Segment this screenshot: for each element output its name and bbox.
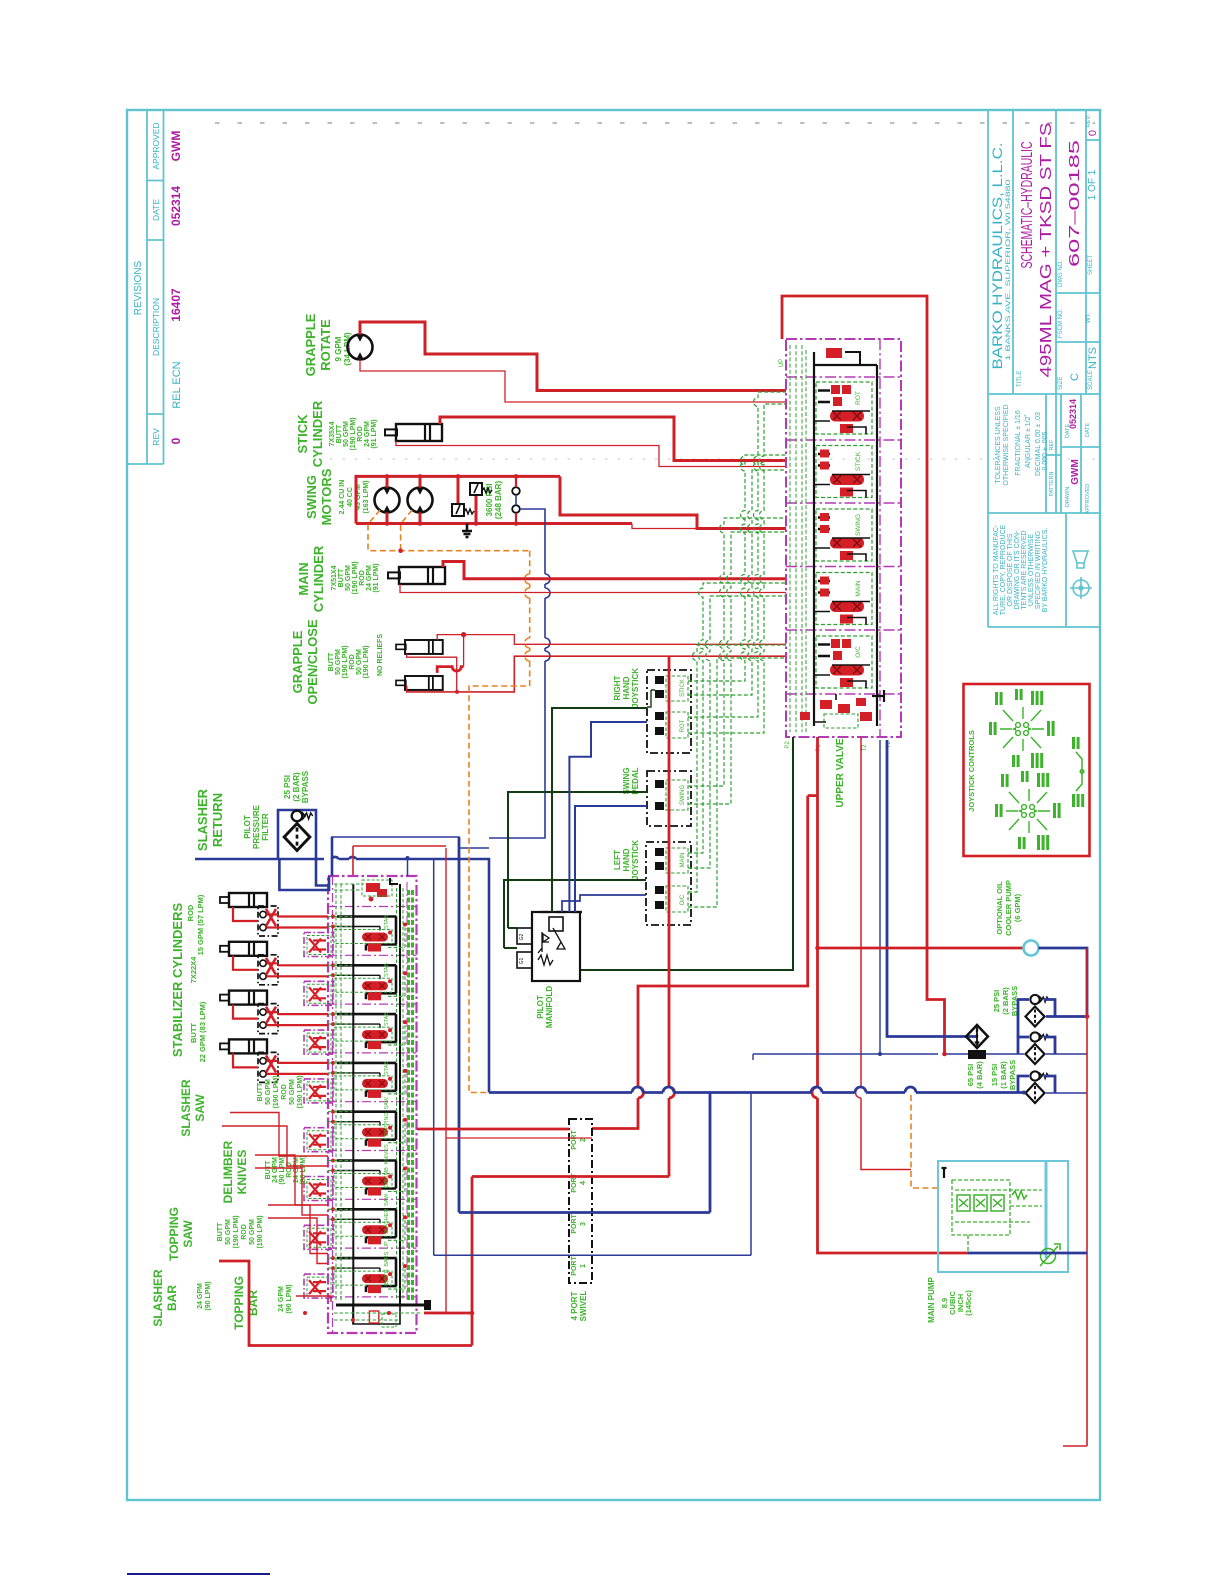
wire: grapple o/c butt net (red) xyxy=(437,633,786,667)
joystick: swing pedal (box) xyxy=(647,771,691,826)
lower valve section 5: TOPPING SAW xyxy=(304,1096,407,1151)
svg-text:50 GPM: 50 GPM xyxy=(249,1219,256,1245)
svg-text:REV.: REV. xyxy=(1086,114,1092,127)
svg-text:O/C: O/C xyxy=(680,894,686,905)
svg-text:ROD: ROD xyxy=(349,654,356,670)
svg-text:APPROVED: APPROVED xyxy=(151,122,161,169)
wire: T2 thin blue east xyxy=(753,1053,1024,1055)
blue return main to port1/port3 xyxy=(458,837,461,1213)
svg-text:495ML MAG + TKSD ST FS: 495ML MAG + TKSD ST FS xyxy=(1038,123,1055,378)
svg-text:ROD: ROD xyxy=(359,570,366,586)
upper valve inner enclosure line xyxy=(879,339,881,737)
svg-text:MANIFOLD: MANIFOLD xyxy=(545,986,554,1028)
cylinder: stick xyxy=(385,424,442,441)
svg-text:RIGHT: RIGHT xyxy=(613,675,622,700)
svg-text:SAW: SAW xyxy=(181,1220,195,1248)
svg-text:PILOT: PILOT xyxy=(243,815,252,839)
lower valve section 8: BOTH BARS UP xyxy=(304,1241,407,1298)
wire: port2 red west xyxy=(417,1128,569,1131)
svg-text:25 PSI: 25 PSI xyxy=(283,775,292,799)
svg-text:G1: G1 xyxy=(519,957,525,964)
svg-text:15 GPM (57 LPM): 15 GPM (57 LPM) xyxy=(196,894,205,955)
svg-text:O/C: O/C xyxy=(855,646,862,658)
joystick: left hand (box) xyxy=(646,842,691,925)
svg-text:SWING: SWING xyxy=(622,767,631,794)
svg-text:052314: 052314 xyxy=(1068,399,1078,429)
wire: swing pressure buses (red) xyxy=(356,476,786,528)
filter pair: 15 psi xyxy=(1018,1071,1055,1103)
wire: pilot P supply (dark green) from upper valve to manifold xyxy=(580,737,793,970)
svg-text:JOYSTICK: JOYSTICK xyxy=(631,668,640,708)
upper valve work sections xyxy=(814,382,872,688)
section: SWING xyxy=(814,509,872,561)
svg-text:DELIMBER: DELIMBER xyxy=(221,1140,235,1203)
stabilizer labels xyxy=(170,894,207,1062)
filter pair: 25 psi xyxy=(1018,995,1055,1027)
svg-text:SWING: SWING xyxy=(855,514,862,536)
svg-text:GRAPPLE: GRAPPLE xyxy=(303,313,318,376)
svg-text:SWING: SWING xyxy=(304,475,319,519)
svg-text:BUTT: BUTT xyxy=(328,652,335,671)
svg-text:OPTIONAL OIL: OPTIONAL OIL xyxy=(995,881,1004,935)
svg-text:STICK: STICK xyxy=(295,414,310,454)
svg-text:COOLER PUMP: COOLER PUMP xyxy=(1004,880,1013,936)
section: ROT xyxy=(814,382,872,434)
revisions table xyxy=(127,111,164,464)
svg-text:OPEN/CLOSE: OPEN/CLOSE xyxy=(305,619,320,705)
label: main pump xyxy=(927,1276,973,1322)
stabilizer cylinder 1 xyxy=(220,893,278,936)
wire: main return (blue) across bottom xyxy=(489,1087,1024,1093)
fold tick marks below top frame xyxy=(215,122,1095,124)
svg-text:15 PSI: 15 PSI xyxy=(990,1064,999,1087)
svg-text:SLASHER: SLASHER xyxy=(151,1269,165,1327)
svg-text:PORT: PORT xyxy=(571,1214,578,1234)
svg-text:50 GPM: 50 GPM xyxy=(343,421,350,447)
svg-text:PORT: PORT xyxy=(571,1130,578,1150)
relief valve: swing 2 xyxy=(470,483,492,495)
svg-text:2.44 CU IN: 2.44 CU IN xyxy=(339,480,346,515)
svg-text:SLASHER SAW: SLASHER SAW xyxy=(384,1193,390,1235)
svg-text:STAB: STAB xyxy=(384,1061,390,1075)
svg-text:BYPASS: BYPASS xyxy=(1008,1060,1017,1090)
svg-text:(190 LPM): (190 LPM) xyxy=(297,1075,304,1108)
svg-text:MOTORS: MOTORS xyxy=(319,468,334,525)
lower valve section 1: STAB xyxy=(304,915,407,957)
svg-text:GWM: GWM xyxy=(1070,459,1081,485)
svg-text:TOPPING: TOPPING xyxy=(232,1276,246,1330)
svg-text:50 GPM: 50 GPM xyxy=(265,1079,272,1105)
lower valve black rails xyxy=(353,884,400,1324)
svg-text:BUTT: BUTT xyxy=(189,1023,198,1043)
svg-text:(1 BAR): (1 BAR) xyxy=(999,1061,1008,1089)
svg-text:25 PSI: 25 PSI xyxy=(992,990,1001,1013)
svg-text:T2: T2 xyxy=(862,744,868,752)
svg-text:RETURN: RETURN xyxy=(210,793,225,847)
svg-text:FILTER: FILTER xyxy=(261,813,270,841)
wire: port1 blue xyxy=(434,1093,751,1256)
title block text xyxy=(989,114,1099,390)
svg-text:ROD: ROD xyxy=(241,1224,248,1240)
svg-text:GRAPPLE: GRAPPLE xyxy=(290,630,305,693)
svg-text:3: 3 xyxy=(580,1222,587,1226)
svg-text:SLASHER: SLASHER xyxy=(195,788,210,851)
wire: upper valve T2 drain (blue thin) xyxy=(879,740,881,1054)
svg-text:DECIMAL 0.00 ± .03: DECIMAL 0.00 ± .03 xyxy=(1035,412,1042,476)
upper valve enclosure (purple dash-dot) xyxy=(786,339,901,737)
wire: grapple rotate A (red) xyxy=(360,322,786,391)
lower valve section 2: STAB xyxy=(304,963,407,1006)
svg-text:1 OF 1: 1 OF 1 xyxy=(1087,169,1098,200)
svg-text:24 GPM: 24 GPM xyxy=(197,1283,204,1309)
svg-text:(2 BAR): (2 BAR) xyxy=(292,772,301,802)
svg-text:9 GPM: 9 GPM xyxy=(334,336,343,361)
svg-text:STICK: STICK xyxy=(680,679,686,697)
svg-text:50 GPM: 50 GPM xyxy=(289,1079,296,1105)
saw circuit wires (red) xyxy=(222,1113,331,1303)
svg-text:24 GPM: 24 GPM xyxy=(272,1157,279,1183)
svg-text:7X35X4: 7X35X4 xyxy=(329,421,336,446)
wire: swing drain to return (blue) xyxy=(489,509,550,838)
svg-text:DRAWING OR ITS CON-: DRAWING OR ITS CON- xyxy=(1014,530,1021,609)
svg-text:PRESSURE: PRESSURE xyxy=(252,804,261,849)
wire: blue return upper (from upper valve area) xyxy=(331,837,489,848)
svg-text:HAND: HAND xyxy=(622,676,631,699)
section: MAIN xyxy=(814,573,872,625)
svg-text:STICK: STICK xyxy=(855,451,862,471)
svg-text:ALL RIGHTS TO MANUFAC-: ALL RIGHTS TO MANUFAC- xyxy=(993,524,1000,615)
svg-text:(163 LPM): (163 LPM) xyxy=(363,480,370,513)
svg-text:BUTT: BUTT xyxy=(338,568,345,587)
svg-text:SWING: SWING xyxy=(680,785,686,806)
svg-text:STAB: STAB xyxy=(384,1012,390,1026)
wire: upper valve T trunk (blue) xyxy=(887,740,977,1037)
svg-text:NO RELIEFS: NO RELIEFS xyxy=(377,634,384,676)
svg-text:50 GPM: 50 GPM xyxy=(356,649,363,675)
svg-text:24 GPM: 24 GPM xyxy=(364,421,371,447)
svg-text:0: 0 xyxy=(1087,130,1099,136)
65 psi filter xyxy=(966,1025,988,1048)
cylinder: main xyxy=(388,567,445,584)
logo mark xyxy=(1070,551,1092,599)
svg-text:UPPER VALVE: UPPER VALVE xyxy=(835,738,846,807)
svg-text:3600 PSI: 3600 PSI xyxy=(485,484,494,517)
svg-text:FRACTIONAL ± 1/16: FRACTIONAL ± 1/16 xyxy=(1015,410,1022,476)
wire: upper valve O/C-B return leg (red) xyxy=(592,796,808,1129)
svg-text:C: C xyxy=(1069,373,1081,381)
svg-text:(248 BAR): (248 BAR) xyxy=(494,481,503,520)
svg-text:SIZE: SIZE xyxy=(1058,377,1064,390)
svg-text:(190 LPM): (190 LPM) xyxy=(350,417,357,450)
svg-text:PILOT: PILOT xyxy=(536,995,545,1019)
svg-text:APPROVED: APPROVED xyxy=(1085,484,1091,515)
orange case drain to pump xyxy=(911,1095,938,1188)
svg-text:OR DISPOSE OF THIS: OR DISPOSE OF THIS xyxy=(1007,533,1014,606)
red charge trunk down right xyxy=(1063,948,1087,1446)
wire: swing test point to blue drain xyxy=(515,495,517,505)
svg-text:4 PORT: 4 PORT xyxy=(570,1291,579,1320)
green dashed pilot fan: joysticks to upper valve sections xyxy=(688,392,786,907)
svg-text:50 GPM: 50 GPM xyxy=(345,565,352,591)
svg-text:KNIVES: KNIVES xyxy=(235,1150,249,1195)
svg-text:STABILIZER CYLINDERS: STABILIZER CYLINDERS xyxy=(170,903,185,1058)
svg-text:1 BANKS AVE. SUPERIOR, WI 5: 1 BANKS AVE. SUPERIOR, WI 54880 xyxy=(1005,179,1012,361)
svg-text:DESCRIPTION: DESCRIPTION xyxy=(151,298,161,356)
svg-text:65 PSI: 65 PSI xyxy=(966,1064,975,1087)
svg-text:(90 LPM): (90 LPM) xyxy=(300,1155,307,1184)
svg-text:SAW: SAW xyxy=(193,1094,207,1122)
pilot pressure filter assembly xyxy=(278,810,316,859)
section: O/C xyxy=(814,636,872,688)
lower valve inlet section xyxy=(334,878,398,902)
svg-text:BARKO HYDRAULICS, L.L.C.: BARKO HYDRAULICS, L.L.C. xyxy=(989,143,1005,370)
svg-text:607–00185: 607–00185 xyxy=(1066,140,1083,267)
svg-text:(190 LPM): (190 LPM) xyxy=(273,1075,280,1108)
svg-text:STAB: STAB xyxy=(384,963,390,977)
svg-text:16407: 16407 xyxy=(169,288,183,322)
lower valve section 7: SLASHER SAW xyxy=(304,1193,407,1249)
svg-text:JOYSTICK: JOYSTICK xyxy=(631,840,640,880)
svg-text:ROD: ROD xyxy=(357,426,364,442)
svg-text:FSCM NO.: FSCM NO. xyxy=(1058,308,1064,338)
red pilot riser right of bank xyxy=(424,848,446,1313)
svg-text:ROTATE: ROTATE xyxy=(318,319,333,371)
svg-text:24 GPM: 24 GPM xyxy=(293,1157,300,1183)
svg-text:G2: G2 xyxy=(519,933,525,940)
wire: main butt (red) xyxy=(443,562,786,579)
pilot manifold block xyxy=(517,912,582,981)
wire: stick rod (red thin) xyxy=(396,441,786,467)
lower valve section 4: STAB xyxy=(304,1061,407,1103)
svg-text:REV: REV xyxy=(151,428,161,446)
svg-text:(190 LPM): (190 LPM) xyxy=(352,561,359,594)
tank stub under swing relief xyxy=(462,524,472,538)
motor: grapple rotate xyxy=(348,335,373,360)
wire: upper valve P2 trunk (red) xyxy=(812,737,968,1253)
wire: port4 red xyxy=(472,656,675,1176)
wire: orange pilot drain from swing motors xyxy=(368,510,530,1093)
wire: pilot P net (dark green) manifold to joysticks xyxy=(504,708,647,948)
stabilizer cylinder 3 xyxy=(220,991,278,1034)
cylinders: grapple open/close xyxy=(396,640,443,654)
svg-text:PORT: PORT xyxy=(571,1256,578,1276)
joystick: right hand (box) xyxy=(647,670,691,753)
wire: pilot T net (blue) joysticks to manifold xyxy=(562,722,647,912)
svg-text:4: 4 xyxy=(580,1181,587,1185)
svg-text:GWM: GWM xyxy=(169,131,183,162)
optional oil cooler pump xyxy=(995,880,1022,936)
svg-text:SCALE: SCALE xyxy=(1088,370,1094,390)
tolerances block text xyxy=(995,399,1091,514)
revisions table text xyxy=(133,122,183,445)
svg-text:24 GPM: 24 GPM xyxy=(366,565,373,591)
svg-text:REVISIONS: REVISIONS xyxy=(133,260,144,315)
svg-text:052314: 052314 xyxy=(169,186,183,226)
wire: upper valve P1 trunk (red) xyxy=(856,737,906,1170)
svg-text:(90 LPM): (90 LPM) xyxy=(205,1281,212,1310)
svg-text:CYLINDER: CYLINDER xyxy=(310,400,325,467)
svg-text:MAIN: MAIN xyxy=(296,562,311,595)
lower valve section 6: DELIMB KNIVES xyxy=(304,1144,407,1201)
svg-text:TITLE: TITLE xyxy=(1017,371,1023,387)
svg-text:ROD: ROD xyxy=(186,904,195,921)
svg-text:DATE: DATE xyxy=(151,199,161,221)
svg-text:BYPASS: BYPASS xyxy=(301,770,310,803)
svg-text:LEFT: LEFT xyxy=(613,850,622,870)
svg-text:ANGULAR ± 1/2˚: ANGULAR ± 1/2˚ xyxy=(1024,414,1032,468)
svg-text:NTS: NTS xyxy=(1087,347,1099,369)
slasher bar loop wire (red) xyxy=(219,1177,472,1346)
saw/knife/bar labels xyxy=(151,1075,307,1329)
fold mark dashed line xyxy=(330,458,1100,460)
svg-text:UP: UP xyxy=(779,359,785,367)
svg-text:(2 BAR): (2 BAR) xyxy=(1001,987,1010,1015)
wire: main rod (red thin) xyxy=(400,584,786,593)
svg-text:REF: REF xyxy=(1049,439,1055,451)
svg-text:TURE, COPY, REPRODUCE: TURE, COPY, REPRODUCE xyxy=(1000,524,1007,615)
stabilizer cylinder 2 xyxy=(220,942,278,985)
svg-text:BUTT: BUTT xyxy=(217,1222,224,1241)
title block lines xyxy=(988,111,1100,627)
svg-text:CYLINDER: CYLINDER xyxy=(311,545,326,612)
svg-text:50 GPM: 50 GPM xyxy=(335,649,342,675)
border frame xyxy=(127,110,1100,1500)
svg-text:50 GPM: 50 GPM xyxy=(225,1219,232,1245)
svg-text:BOTH BARS UP: BOTH BARS UP xyxy=(384,1241,390,1285)
svg-text:PATTERN: PATTERN xyxy=(1049,472,1055,497)
test point gauges (swing) xyxy=(512,487,520,513)
svg-text:(90 LPM): (90 LPM) xyxy=(279,1155,286,1184)
svg-text:TOLERANCES UNLESS: TOLERANCES UNLESS xyxy=(995,406,1002,484)
upper valve black supply rails xyxy=(814,352,877,726)
lower valve section 3: STAB xyxy=(304,1012,407,1054)
svg-text:HAND: HAND xyxy=(622,848,631,871)
upper valve top inlet cluster xyxy=(779,348,860,367)
svg-text:(6 GPM): (6 GPM) xyxy=(1013,893,1022,922)
svg-text:7X51X4: 7X51X4 xyxy=(331,565,338,590)
svg-text:1: 1 xyxy=(580,1264,587,1268)
svg-text:(190 LPM): (190 LPM) xyxy=(257,1215,264,1248)
svg-text:STAB: STAB xyxy=(384,915,390,929)
wire: red supply top of upper valve xyxy=(782,296,945,1054)
filter pair: mid xyxy=(1018,1032,1055,1064)
svg-text:REL ECN: REL ECN xyxy=(171,361,183,408)
lower valve load-sense ladder (green) xyxy=(407,890,410,1300)
svg-text:(190 LPM): (190 LPM) xyxy=(233,1215,240,1248)
svg-text:(190 LPM): (190 LPM) xyxy=(363,645,370,678)
bottom-left blue underline artifact xyxy=(127,1573,270,1575)
svg-text:MAIN: MAIN xyxy=(855,580,862,597)
wire: grapple rotate B (red thin) xyxy=(360,360,786,403)
svg-text:UNLESS OTHERWISE: UNLESS OTHERWISE xyxy=(1028,534,1035,607)
svg-text:BUTT: BUTT xyxy=(265,1160,272,1179)
svg-text:0.000 ± .005: 0.000 ± .005 xyxy=(1042,431,1049,470)
svg-text:BAR: BAR xyxy=(165,1285,179,1311)
svg-text:24 GPM: 24 GPM xyxy=(278,1286,285,1312)
lower valve enclosure (purple dash-dot) xyxy=(328,876,417,1333)
stabilizer cylinder 4 xyxy=(220,1039,278,1082)
svg-text:ROT: ROT xyxy=(680,719,686,732)
wire: red pilot feed into lower bank xyxy=(353,846,446,876)
wire: stick butt (red) xyxy=(440,417,786,461)
svg-text:P2: P2 xyxy=(785,741,791,749)
svg-text:TOPPING: TOPPING xyxy=(167,1207,181,1261)
pilot filter drain verticals into bank xyxy=(279,837,332,890)
svg-text:DELIMB KNIVES: DELIMB KNIVES xyxy=(384,1144,390,1188)
svg-text:22 GPM (83 LPM): 22 GPM (83 LPM) xyxy=(198,1001,207,1062)
svg-text:SCHEMATIC–HYDRAULIC: SCHEMATIC–HYDRAULIC xyxy=(1019,142,1036,269)
svg-text:(145cc): (145cc) xyxy=(964,1290,973,1316)
svg-text:MAIN: MAIN xyxy=(680,853,686,868)
svg-text:DRAWN: DRAWN xyxy=(1065,487,1071,508)
upper valve green pilot rails (dashed) xyxy=(790,345,806,732)
lower valve section dividers xyxy=(328,907,417,1297)
svg-text:MAIN PUMP: MAIN PUMP xyxy=(927,1276,936,1322)
svg-text:ROD: ROD xyxy=(281,1084,288,1100)
svg-text:WT.: WT. xyxy=(1086,313,1092,324)
pump outlet (navy) xyxy=(968,1252,1087,1255)
wire: slasher return main (blue) xyxy=(195,857,489,1093)
svg-text:(190 LPM): (190 LPM) xyxy=(342,645,349,678)
rights text block xyxy=(993,524,1049,615)
svg-text:JOYSTICK CONTROLS: JOYSTICK CONTROLS xyxy=(967,730,976,812)
section: STICK xyxy=(814,446,872,498)
svg-text:SPECIFIED IN WRITING: SPECIFIED IN WRITING xyxy=(1035,531,1042,609)
lower valve outlet section xyxy=(303,1300,431,1327)
4 port swivel box xyxy=(569,1119,592,1283)
label: right hand joystick xyxy=(536,668,640,1028)
svg-text:TENTS ARE RESERVED: TENTS ARE RESERVED xyxy=(1021,530,1028,609)
svg-text:0: 0 xyxy=(169,437,183,444)
svg-text:TOPPING SAW: TOPPING SAW xyxy=(384,1096,390,1137)
relief valve: swing 1 xyxy=(452,504,474,516)
wire: port3 blue xyxy=(459,1093,710,1213)
svg-text:SHEET: SHEET xyxy=(1088,255,1094,275)
svg-text:OTHERWISE SPECIFIED: OTHERWISE SPECIFIED xyxy=(1003,404,1010,485)
svg-text:BUTT: BUTT xyxy=(257,1082,264,1101)
svg-text:(4 BAR): (4 BAR) xyxy=(975,1061,984,1089)
svg-text:(91 LPM): (91 LPM) xyxy=(373,563,380,592)
svg-text:DATE: DATE xyxy=(1085,423,1091,438)
svg-text:7X22X4: 7X22X4 xyxy=(189,956,198,984)
svg-text:BY BARKO HYDRAULICS.: BY BARKO HYDRAULICS. xyxy=(1042,528,1049,613)
upper valve section dividers xyxy=(786,377,901,694)
wire: grapple o/c rod net (red) xyxy=(407,654,786,694)
svg-text:ROT: ROT xyxy=(855,391,862,405)
svg-text:40 CC: 40 CC xyxy=(347,487,354,507)
svg-text:PEDAL: PEDAL xyxy=(631,767,640,794)
svg-text:DWG NO.: DWG NO. xyxy=(1058,260,1064,287)
svg-text:SLASHER: SLASHER xyxy=(179,1079,193,1137)
svg-text:BUTT: BUTT xyxy=(336,424,343,443)
svg-text:SWIVEL: SWIVEL xyxy=(579,1291,588,1322)
upper valve bottom outlet cluster xyxy=(785,690,892,752)
swing motors pair xyxy=(375,488,400,513)
svg-text:(90 LPM): (90 LPM) xyxy=(286,1284,293,1313)
svg-text:(91 LPM): (91 LPM) xyxy=(371,419,378,448)
